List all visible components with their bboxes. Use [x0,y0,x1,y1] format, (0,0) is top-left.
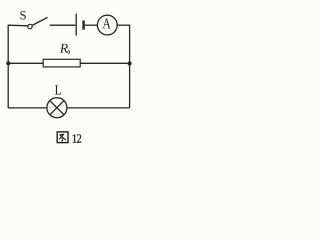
lamp cross X [50,101,64,115]
label subscript 0 of R0 [68,50,70,53]
battery long plate (+) [75,14,77,36]
wire: bottom horizontal right segment [67,107,130,109]
switch S pivot circle [28,24,32,28]
switch S blade [32,17,48,25]
wire: switch to battery [50,24,76,26]
caption CJK character tu (figure) box [57,132,68,143]
wire: bottom horizontal left segment [8,107,47,109]
wire: middle horizontal left segment [8,62,43,64]
battery short plate (-) [82,20,84,29]
wire: ammeter to top-right corner [118,24,130,26]
resistor R0 body [43,59,80,67]
wire: top-left horizontal segment to switch [8,24,28,27]
wire: right vertical side [129,25,131,108]
caption digit 2 [77,134,81,142]
ammeter circle [97,15,117,35]
lamp circle [47,98,67,118]
wire: middle horizontal right segment [80,62,129,64]
caption digit 1 [73,134,77,142]
label S [20,11,25,19]
wire: left vertical side [7,25,9,108]
wire: battery to ammeter [85,24,97,26]
ammeter letter A [102,18,110,28]
label R of R0 [60,44,68,53]
label L [55,85,61,94]
junction dot right [128,61,132,65]
junction dot left [6,61,10,65]
